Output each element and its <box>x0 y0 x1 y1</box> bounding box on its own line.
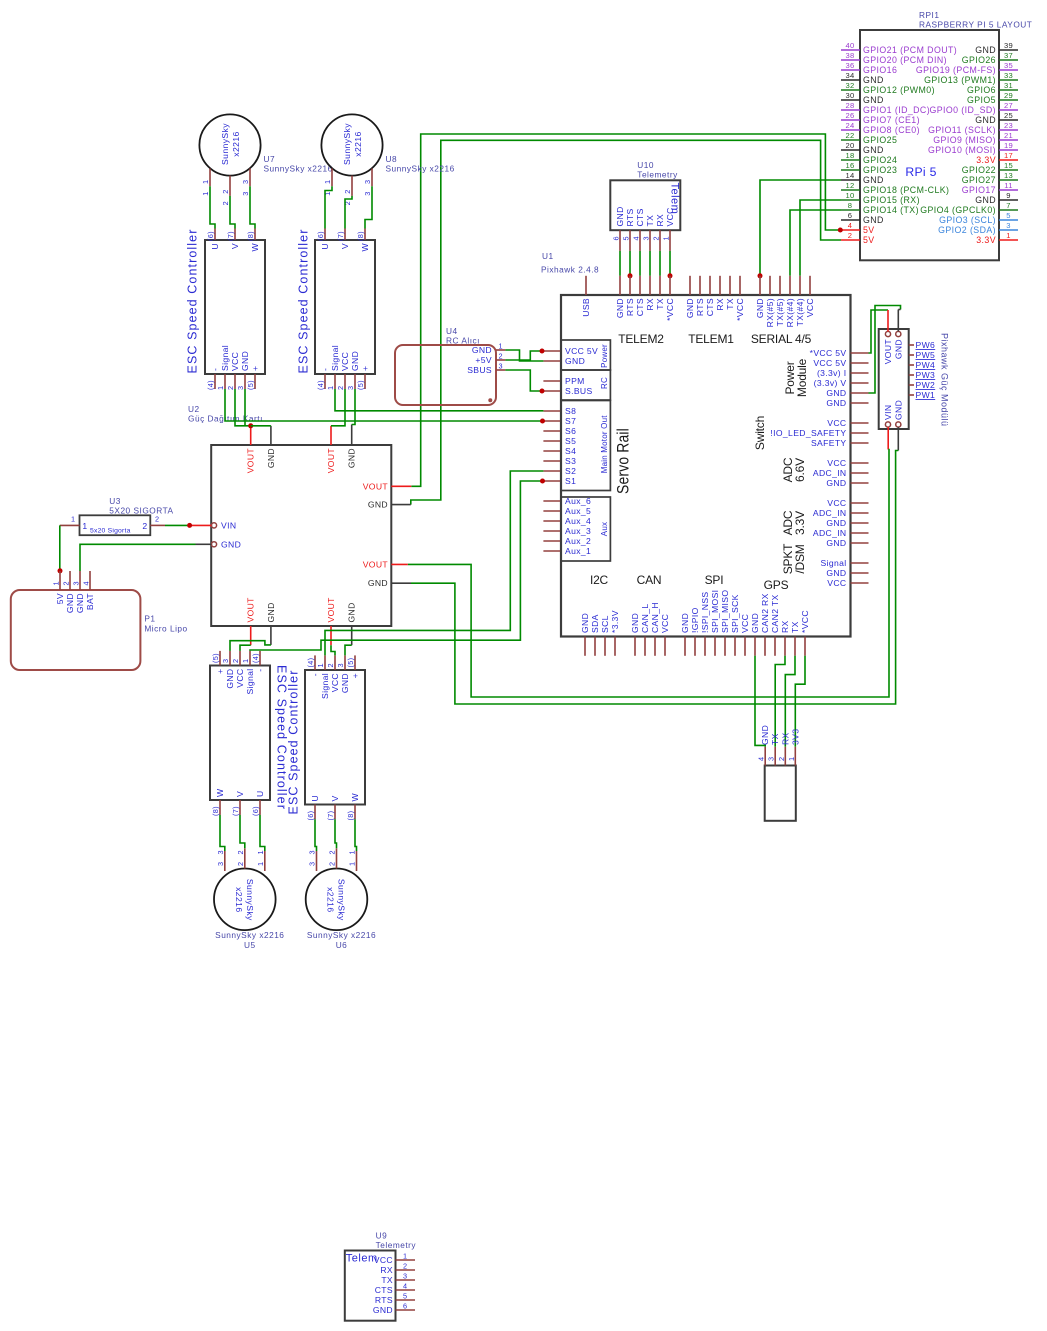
U1 right pin Signal y=563 <box>851 562 869 564</box>
svg-text:!IO_LED_SAFETY: !IO_LED_SAFETY <box>770 428 846 438</box>
wire U1 GPS *VCC to GPS module 3V3 <box>795 656 805 747</box>
svg-text:U1: U1 <box>542 251 554 261</box>
svg-text:SPI_MISO: SPI_MISO <box>720 590 730 633</box>
svg-text:4: 4 <box>632 236 641 240</box>
svg-text:Power: Power <box>600 344 609 368</box>
svg-text:GND: GND <box>472 345 492 355</box>
svg-text:U2: U2 <box>188 404 200 414</box>
ESC Speed Controller box (top) <box>205 240 265 374</box>
U1 left pin S7 <box>543 420 561 422</box>
svg-text:SunnySky: SunnySky <box>245 879 255 921</box>
svg-text:V: V <box>235 791 245 797</box>
svg-text:GPIO24: GPIO24 <box>863 155 897 165</box>
svg-text:5V: 5V <box>863 225 875 235</box>
motor U5 pin 3 <box>224 851 226 871</box>
battery P1 Micro Lipo box <box>11 590 141 670</box>
svg-text:(6): (6) <box>306 811 315 821</box>
junction at SERIAL4/5 GND <box>758 273 763 278</box>
wire ESC U8 VCC to U2 VOUT top2 <box>331 389 345 426</box>
wire ESC U7 GND to U2 GND top1 <box>244 389 246 426</box>
svg-text:GND: GND <box>615 298 625 318</box>
svg-text:(7): (7) <box>231 806 240 816</box>
svg-text:Servo Rail: Servo Rail <box>614 428 633 494</box>
U1 left pin Aux_4 <box>543 520 561 522</box>
ESC bottom pin 2 VCC <box>344 374 346 389</box>
IC U3 5x20 Sigorta fuse box <box>80 515 151 535</box>
U2 right pin VOUT 2 <box>391 563 408 565</box>
svg-text:1: 1 <box>71 515 75 524</box>
U1 top pin CTS at x=640 <box>639 276 641 295</box>
svg-text:VOUT: VOUT <box>363 481 389 491</box>
svg-text:+5V: +5V <box>475 355 492 365</box>
RPI1 right pin 3 GPIO2 (SDA) <box>999 229 1018 231</box>
U1 top pin TX at x=660 <box>659 276 661 295</box>
U1 bottom pin *3.3V x=615 <box>614 637 616 656</box>
U9 pin 4 CTS <box>396 1289 416 1291</box>
U10 pin 5 RTS <box>629 230 631 251</box>
U1 right pin GND y=403 <box>851 402 869 404</box>
U3 pin 2 stub <box>150 524 165 526</box>
GPS module pin 2 RX <box>784 747 786 766</box>
svg-text:30: 30 <box>845 91 854 100</box>
svg-text:GPIO13 (PWM1): GPIO13 (PWM1) <box>924 75 996 85</box>
U1 inner box Main Motor Out <box>561 401 610 491</box>
wire ESC U6 V to motor U6 pin2 <box>335 819 337 848</box>
U1 top pin RX(#5) at x=770 <box>769 276 771 295</box>
wire ESC U7 Signal to U1 S7 <box>225 389 543 421</box>
svg-text:5X20 SIGORTA: 5X20 SIGORTA <box>109 506 173 516</box>
motor U7 pin 2 <box>229 176 231 196</box>
svg-text:GPIO1 (ID_DC): GPIO1 (ID_DC) <box>863 105 930 115</box>
svg-text:3: 3 <box>767 757 776 761</box>
svg-text:2: 2 <box>777 757 786 761</box>
junction at battery pin1 <box>58 568 63 573</box>
RPI1 left pin 18 GPIO24 <box>841 159 860 161</box>
svg-text:CAN: CAN <box>637 573 662 587</box>
U1 left pin S8 <box>543 410 561 412</box>
svg-text:+: + <box>250 366 260 371</box>
svg-text:S6: S6 <box>565 426 576 436</box>
svg-text:3: 3 <box>336 663 345 667</box>
svg-text:U: U <box>255 790 265 797</box>
wire U8 motor pin3 to ESC W <box>365 186 372 228</box>
svg-text:3: 3 <box>363 180 372 184</box>
U1 bottom pin CAN_L x=645 <box>644 637 646 656</box>
svg-text:GPIO23: GPIO23 <box>863 165 897 175</box>
svg-text:RPi 5: RPi 5 <box>905 165 936 179</box>
svg-text:3: 3 <box>363 191 372 195</box>
svg-text:VOUT: VOUT <box>246 597 256 623</box>
U1 left pin S3 <box>543 460 561 462</box>
svg-text:V: V <box>330 795 340 801</box>
svg-text:Signal: Signal <box>320 673 330 699</box>
svg-text:*3.3V: *3.3V <box>610 610 620 633</box>
U2 top pin VOUT 2 <box>330 426 332 445</box>
RPI1 left pin 8 GPIO14 (TX) <box>841 209 860 211</box>
svg-text:RX(#4): RX(#4) <box>785 298 795 327</box>
svg-text:RTS: RTS <box>625 208 635 226</box>
wire U3 pin2 to U2 VIN <box>165 524 190 526</box>
svg-text:U: U <box>320 243 330 250</box>
U2 pin GND circle <box>211 542 216 547</box>
motor U8 pin 1 <box>331 169 333 187</box>
U9 pin 6 GND <box>396 1309 416 1311</box>
RPI1 right pin 15 GPIO22 <box>999 169 1018 171</box>
svg-text:1: 1 <box>348 862 357 866</box>
svg-text:1: 1 <box>216 386 225 390</box>
svg-text:5V: 5V <box>55 593 65 604</box>
U1 bottom pin GND x=755 <box>754 637 756 656</box>
ESC top pin (8) W <box>254 229 256 241</box>
U1 top pin TX(#4) at x=800 <box>799 276 801 295</box>
svg-text:GND: GND <box>755 298 765 318</box>
svg-text:Main Motor Out: Main Motor Out <box>600 415 609 474</box>
svg-text:GND: GND <box>75 593 85 613</box>
svg-text:6: 6 <box>403 1302 407 1311</box>
svg-text:GND: GND <box>368 578 388 588</box>
svg-text:34: 34 <box>845 71 854 80</box>
svg-text:GND: GND <box>863 175 884 185</box>
RPI1 right pin 23 GPIO11 (SCLK) <box>999 129 1018 131</box>
U2 right pin GND 1 <box>391 504 411 506</box>
junction at RPI1 pin4 <box>838 228 843 233</box>
svg-text:VCC: VCC <box>330 673 340 692</box>
RPI1 left pin 14 GND <box>841 179 860 181</box>
motor U8 pin 2 <box>351 176 353 196</box>
svg-text:x2216: x2216 <box>231 131 241 156</box>
U1 bottom pin SPI_MISO x=725 <box>724 637 726 656</box>
GPS module pin 1 3V3 <box>794 747 796 766</box>
svg-text:SERIAL 4/5: SERIAL 4/5 <box>751 332 812 346</box>
svg-text:GND: GND <box>340 673 350 693</box>
ESC U5 top pin 1 Signal <box>249 651 251 666</box>
svg-text:(4): (4) <box>251 653 260 663</box>
RPI1 left pin 32 GPIO12 (PWM0) <box>841 89 860 91</box>
U10 pin 1 VCC <box>669 230 671 251</box>
wire RPI1 pin8 GPIO14 TX to Pixhawk RX(#4) <box>790 210 841 276</box>
svg-text:ESC Speed Controller: ESC Speed Controller <box>186 229 200 374</box>
svg-text:GPIO22: GPIO22 <box>962 165 996 175</box>
wire ESC U5 VCC to U2 VOUT bottom1 <box>240 645 251 651</box>
RPI1 left pin 34 GND <box>841 79 860 81</box>
U1 left pin Aux_1 <box>543 550 561 552</box>
U1 right pin GND y=483 <box>851 482 869 484</box>
wire ESC U6 W to motor U6 pin1 <box>355 819 357 851</box>
wire ESC U6 GND to U2 GND bottom2 <box>345 645 352 655</box>
svg-text:GND: GND <box>863 145 884 155</box>
svg-text:(8): (8) <box>346 811 355 821</box>
svg-text:S7: S7 <box>565 416 576 426</box>
svg-text:37: 37 <box>1004 51 1013 60</box>
svg-text:5: 5 <box>403 1292 407 1301</box>
svg-text:U: U <box>210 243 220 250</box>
svg-text:(7): (7) <box>336 231 345 241</box>
RPI1 right pin 35 GPIO19 (PCM-FS) <box>999 69 1018 71</box>
svg-text:GND: GND <box>826 478 846 488</box>
U1 left pin Aux_2 <box>543 540 561 542</box>
ESC U5 bottom pin (8) W <box>219 800 221 815</box>
svg-text:GND: GND <box>266 448 276 468</box>
wire U3 pin1 down to battery 5V <box>59 525 61 570</box>
svg-text:U6: U6 <box>336 940 348 950</box>
U1 top pin GND at x=620 <box>619 276 621 295</box>
U1 bottom pin !SPI_NSS x=705 <box>704 637 706 656</box>
RPI1 right pin 9 GND <box>999 199 1018 201</box>
svg-text:3: 3 <box>346 386 355 390</box>
ESC bottom pin 3 GND <box>354 374 356 389</box>
svg-text:12: 12 <box>845 181 854 190</box>
U9 pin 1 VCC <box>396 1259 416 1261</box>
svg-text:GPIO8 (CE0): GPIO8 (CE0) <box>863 125 920 135</box>
wire RPI1 pin14 GND to Pixhawk SERIAL4/5 GND <box>760 180 841 276</box>
svg-text:2: 2 <box>403 1262 407 1271</box>
U1 right pin ADC_IN y=513 <box>851 512 869 514</box>
RPI1 left pin 30 GND <box>841 99 860 101</box>
ESC U6 top pin 3 GND <box>344 655 346 670</box>
wire U10 CTS to Pixhawk TELEM2 <box>639 251 641 276</box>
svg-text:4: 4 <box>848 221 853 230</box>
motor U6 pin 2 <box>336 848 338 868</box>
svg-text:Switch: Switch <box>753 416 767 450</box>
wire ESC U8 GND to U2 GND top2 <box>352 389 355 425</box>
GPS module box <box>765 766 796 821</box>
svg-text:CAN_L: CAN_L <box>640 604 650 633</box>
wire U7 motor pin3 to ESC W <box>250 186 255 228</box>
svg-text:17: 17 <box>1004 151 1013 160</box>
svg-text:S2: S2 <box>565 466 576 476</box>
svg-text:GPIO11 (SCLK): GPIO11 (SCLK) <box>928 125 996 135</box>
svg-text:VCC: VCC <box>665 207 675 226</box>
IC U4 RC Alici rounded box <box>395 345 496 405</box>
svg-text:3: 3 <box>403 1272 407 1281</box>
svg-text:GND: GND <box>225 669 235 689</box>
svg-text:SPI_MOSI: SPI_MOSI <box>710 590 720 633</box>
svg-text:2: 2 <box>62 581 71 585</box>
ESC top pin (8) W <box>364 229 366 241</box>
svg-text:/DSM: /DSM <box>793 544 807 573</box>
svg-text:2: 2 <box>226 386 235 390</box>
U1 left pin VCC 5V <box>543 350 561 352</box>
svg-text:4: 4 <box>403 1282 407 1291</box>
svg-text:GPIO5: GPIO5 <box>967 95 996 105</box>
svg-text:(4): (4) <box>306 658 315 668</box>
svg-text:GND: GND <box>975 195 996 205</box>
svg-text:TX(#5): TX(#5) <box>775 298 785 326</box>
U1 top pin GND at x=760 <box>759 276 761 295</box>
svg-text:GPIO15 (RX): GPIO15 (RX) <box>863 195 920 205</box>
U1 right pin (3.3v) I y=373 <box>851 372 869 374</box>
power module pin PW4 <box>909 364 914 366</box>
U1 left pin S1 <box>543 480 561 482</box>
power module pin PW1 <box>909 394 914 396</box>
U1 bottom pin !GPIO x=695 <box>694 637 696 656</box>
motor U6 pin 1 <box>356 851 358 871</box>
ESC U6 bottom pin (7) V <box>334 805 336 820</box>
U1 left pin S5 <box>543 440 561 442</box>
svg-text:1: 1 <box>348 850 357 854</box>
svg-text:GND: GND <box>266 602 276 622</box>
svg-text:GPIO3 (SCL): GPIO3 (SCL) <box>939 215 996 225</box>
RPI1 left pin 28 GPIO1 (ID_DC) <box>841 109 860 111</box>
svg-text:U: U <box>310 795 320 802</box>
svg-text:5: 5 <box>622 236 631 240</box>
svg-text:U3: U3 <box>109 496 121 506</box>
svg-text:1: 1 <box>52 581 61 585</box>
svg-text:(3.3v) I: (3.3v) I <box>817 368 847 378</box>
svg-text:8: 8 <box>848 201 853 210</box>
U2 top pin GND 1 <box>270 426 272 445</box>
wire ESC U6 Signal to U1 S2 <box>325 471 543 655</box>
svg-text:2: 2 <box>142 521 147 531</box>
U1 bottom pin RX x=785 <box>784 637 786 656</box>
svg-text:V: V <box>340 243 350 249</box>
svg-text:GPIO19 (PCM-FS): GPIO19 (PCM-FS) <box>916 65 996 75</box>
svg-text:SunnySky: SunnySky <box>342 123 352 165</box>
svg-text:GPIO27: GPIO27 <box>962 175 996 185</box>
svg-text:GND: GND <box>826 538 846 548</box>
ESC U5 top pin 3 GND <box>229 651 231 666</box>
svg-text:S8: S8 <box>565 406 576 416</box>
RPI1 left pin 6 GND <box>841 219 860 221</box>
U2 top pin GND 2 <box>351 425 353 446</box>
U1 left pin GND <box>543 360 561 362</box>
ESC top pin (7) V <box>344 229 346 241</box>
svg-text:Signal: Signal <box>245 669 255 695</box>
svg-text:6.6V: 6.6V <box>793 458 807 482</box>
U1 right pin VCC y=423 <box>851 422 869 424</box>
junction at U2 VOUT top1 <box>248 423 253 428</box>
svg-text:2: 2 <box>236 850 245 854</box>
wire RPI1 pin4 5V to U2 VOUT output <box>411 134 840 486</box>
wire PM GND to U2 GND rail <box>411 451 898 705</box>
svg-text:TX: TX <box>725 298 735 310</box>
U9 pin 3 TX <box>396 1279 416 1281</box>
svg-text:33: 33 <box>1004 71 1013 80</box>
svg-text:(5): (5) <box>356 380 365 390</box>
svg-text:SunnySky: SunnySky <box>220 123 230 165</box>
svg-text:(5): (5) <box>346 658 355 668</box>
svg-text:GND: GND <box>750 613 760 633</box>
U2 right pin GND 2 <box>391 582 411 584</box>
svg-text:3: 3 <box>216 850 225 854</box>
ESC Speed Controller box (bottom) <box>210 666 270 801</box>
svg-text:(4): (4) <box>316 380 325 390</box>
U1 right pin GND y=393 <box>851 392 869 394</box>
wire U4 +5V to U1 VCC 5V <box>505 351 541 360</box>
svg-text:1: 1 <box>403 1252 407 1261</box>
svg-text:+: + <box>360 366 370 371</box>
RPI1 right pin 25 GND <box>999 119 1018 121</box>
svg-text:RTS: RTS <box>625 298 635 316</box>
svg-text:GND: GND <box>221 539 241 549</box>
GPS module pin 4 GND <box>764 747 766 766</box>
wire RPI1 pin10 GPIO15 RX to Pixhawk TX(#4) <box>800 200 841 276</box>
svg-text:VCC: VCC <box>827 498 846 508</box>
U10 pin 3 TX <box>649 230 651 251</box>
svg-text:(6): (6) <box>316 231 325 241</box>
svg-text:CTS: CTS <box>705 298 715 316</box>
svg-text:21: 21 <box>1004 131 1013 140</box>
svg-text:6: 6 <box>612 236 621 240</box>
svg-text:1: 1 <box>201 191 210 195</box>
svg-text:x2216: x2216 <box>234 887 244 912</box>
U1 bottom pin CAN_H x=655 <box>654 637 656 656</box>
wire U8 motor pin2 to ESC V <box>345 196 352 229</box>
IC U10 Telemetry box <box>610 180 680 230</box>
svg-text:ESC Speed Controller: ESC Speed Controller <box>287 670 301 815</box>
wire U1 GPS GND to GPS module pin4 <box>755 656 765 747</box>
U4 pin 3 SBUS <box>496 369 505 371</box>
svg-text:10: 10 <box>845 191 854 200</box>
svg-text:GPIO9 (MISO): GPIO9 (MISO) <box>933 135 996 145</box>
svg-text:PW3: PW3 <box>916 370 936 380</box>
svg-text:GPIO20 (PCM DIN): GPIO20 (PCM DIN) <box>863 55 947 65</box>
svg-text:GND: GND <box>685 298 695 318</box>
svg-text:PPM: PPM <box>565 376 585 386</box>
U1 right pin ADC_IN y=533 <box>851 532 869 534</box>
U1 top pin CTS at x=710 <box>709 276 711 295</box>
RPI1 left pin 16 GPIO23 <box>841 169 860 171</box>
svg-text:Aux_3: Aux_3 <box>565 526 591 536</box>
ESC U6 bottom pin (8) W <box>354 805 356 820</box>
wire U10 RX to Pixhawk TELEM2 <box>659 251 661 276</box>
svg-text:1: 1 <box>241 659 250 663</box>
svg-text:GND: GND <box>65 593 75 613</box>
svg-text:19: 19 <box>1004 141 1013 150</box>
U4 pin 1 GND <box>496 349 505 351</box>
wire U1 GND to power module GND <box>869 306 901 394</box>
svg-text:PW6: PW6 <box>916 340 936 350</box>
svg-text:TELEM2: TELEM2 <box>618 332 664 346</box>
ESC top pin (6) U <box>324 229 326 241</box>
svg-text:GPIO4 (GPCLK0): GPIO4 (GPCLK0) <box>920 205 996 215</box>
U1 bottom pin SDA x=595 <box>594 637 596 656</box>
IC U9 Telemetry box <box>345 1251 396 1321</box>
wire power module GND down <box>897 427 899 451</box>
svg-text:ADC_IN: ADC_IN <box>813 528 847 538</box>
power module pin PW2 <box>909 384 914 386</box>
wire VIN to U2 VOUT rail <box>408 450 889 698</box>
svg-text:VOUT: VOUT <box>326 597 336 623</box>
svg-text:RX: RX <box>780 620 790 633</box>
RPI1 right pin 21 GPIO9 (MISO) <box>999 139 1018 141</box>
svg-text:GND: GND <box>347 602 357 622</box>
U1 right pin GND y=573 <box>851 572 869 574</box>
svg-text:GPIO10 (MOSI): GPIO10 (MOSI) <box>928 145 996 155</box>
svg-text:VCC: VCC <box>235 669 245 688</box>
svg-text:RX: RX <box>645 298 655 311</box>
U2 right pin VOUT 1 <box>391 485 411 487</box>
svg-text:GPS: GPS <box>764 578 789 592</box>
U4 pin 2 +5V <box>496 359 505 361</box>
RPI1 right pin 27 GPIO0 (ID_SD) <box>999 109 1018 111</box>
svg-text:3.3V: 3.3V <box>793 511 807 535</box>
svg-text:(7): (7) <box>326 811 335 821</box>
ESC bottom pin 1 Signal <box>334 374 336 389</box>
svg-text:PW1: PW1 <box>916 390 936 400</box>
svg-text:3: 3 <box>221 659 230 663</box>
svg-text:3: 3 <box>241 191 250 195</box>
ESC top pin (6) U <box>214 229 216 241</box>
svg-text:VCC 5V: VCC 5V <box>565 346 598 356</box>
RPI1 right pin 39 GND <box>999 49 1018 51</box>
wire U10 GND to Pixhawk TELEM2 <box>619 251 621 276</box>
svg-text:35: 35 <box>1004 61 1013 70</box>
svg-text:S5: S5 <box>565 436 576 446</box>
power module pin PW3 <box>909 374 914 376</box>
wire U7 motor pin1 to ESC U <box>210 186 215 228</box>
svg-text:CTS: CTS <box>635 208 645 226</box>
